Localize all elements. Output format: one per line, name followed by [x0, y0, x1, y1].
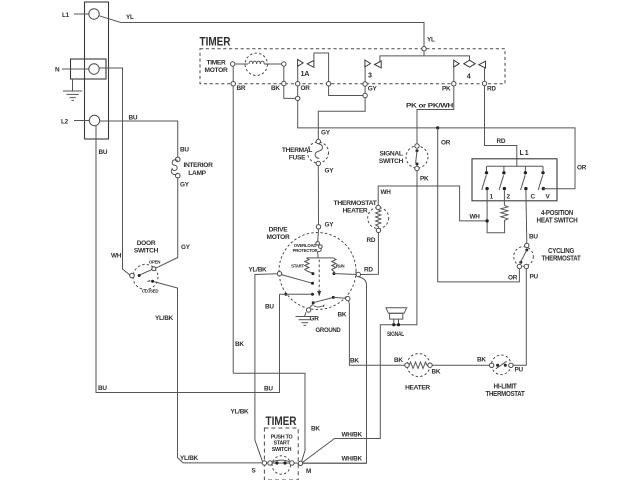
svg-text:C: C: [531, 194, 536, 201]
svg-text:BK: BK: [338, 311, 347, 318]
motor GY terminal: [316, 225, 320, 229]
node OR on timer boundary: [296, 82, 300, 86]
node bypass on timer boundary: [326, 82, 330, 86]
svg-text:4-POSITION: 4-POSITION: [541, 210, 573, 217]
svg-text:TIMER: TIMER: [206, 60, 226, 67]
wire run to RD junction: [334, 273, 358, 276]
terminal block: [85, 2, 109, 139]
svg-text:PU: PU: [530, 274, 539, 281]
signal buzzer: [386, 308, 407, 314]
wire contact 1A output OR: [298, 67, 575, 189]
svg-text:TIMER: TIMER: [200, 37, 232, 49]
wire contact 3 output GY: [364, 67, 366, 93]
terminal N: [89, 64, 99, 74]
thermal fuse: [308, 142, 329, 163]
timer box: [200, 49, 505, 84]
svg-text:BK: BK: [271, 85, 280, 92]
svg-text:WH: WH: [470, 214, 481, 221]
signal switch: [406, 146, 428, 168]
svg-text:GY: GY: [325, 222, 335, 229]
node junction 1A-BK: [296, 96, 300, 100]
svg-text:BU: BU: [180, 147, 189, 154]
svg-text:BU: BU: [129, 114, 138, 121]
cycling thermostat: [514, 247, 534, 267]
svg-text:GY: GY: [180, 182, 190, 189]
overload protector: [317, 229, 320, 242]
terminal L2: [89, 115, 99, 125]
svg-text:SWITCH: SWITCH: [134, 247, 159, 254]
svg-text:YL: YL: [427, 37, 435, 44]
svg-text:TIMER: TIMER: [266, 416, 298, 428]
node WH junction: [485, 219, 488, 222]
svg-text:4: 4: [467, 72, 471, 81]
wire YL bus inside timer: [380, 51, 424, 61]
wire contact 4 PK: [453, 67, 455, 81]
heat switch pole 1: [486, 166, 488, 171]
motor switch arm: [282, 275, 313, 284]
svg-text:DRIVE: DRIVE: [269, 227, 289, 234]
wire contact 4 RD: [484, 68, 486, 81]
svg-text:DOOR: DOOR: [137, 240, 156, 247]
svg-text:HEAT SWITCH: HEAT SWITCH: [537, 217, 578, 224]
svg-text:BU: BU: [264, 386, 273, 393]
wire WH thermostat heater to heat switch: [378, 186, 486, 221]
wire BU heat switch C to cycling thermostat: [525, 190, 528, 243]
wire YL from L1 to timer: [99, 16, 424, 47]
svg-text:BK: BK: [235, 341, 244, 348]
L2 lead wire: [74, 120, 89, 122]
svg-text:BU: BU: [529, 234, 538, 241]
wire WH/BK motor junction to M: [303, 277, 367, 464]
svg-text:BK: BK: [350, 357, 359, 364]
svg-text:CLOSED: CLOSED: [142, 289, 159, 294]
N lead wire: [62, 68, 89, 70]
wire RD thermostat heater to motor: [361, 233, 379, 275]
svg-text:PUSH TO: PUSH TO: [271, 434, 293, 440]
node BR on timer boundary: [231, 82, 235, 86]
wire GY thermal fuse to drive motor: [317, 166, 319, 225]
svg-text:WH: WH: [381, 189, 392, 196]
svg-text:PK or PK/WH: PK or PK/WH: [406, 103, 454, 110]
svg-text:RUN: RUN: [336, 264, 345, 269]
svg-text:BR: BR: [237, 85, 246, 92]
svg-text:L1: L1: [62, 12, 70, 19]
node BK on timer boundary: [282, 81, 286, 85]
wire OR to cycling thermostat: [438, 128, 520, 282]
wire V to OR riser: [543, 188, 545, 190]
svg-text:MOTOR: MOTOR: [205, 67, 228, 74]
svg-text:YL/BK: YL/BK: [249, 266, 268, 273]
svg-text:WH: WH: [111, 253, 122, 260]
bottom timer box: [264, 428, 298, 480]
wire RD to heat switch: [485, 86, 517, 167]
svg-text:YL: YL: [126, 14, 134, 21]
svg-text:SIGNAL: SIGNAL: [379, 151, 402, 158]
svg-text:BU: BU: [98, 385, 107, 392]
svg-text:START: START: [291, 264, 304, 269]
node RD on timer boundary: [482, 81, 486, 85]
wire BU from L2 to interior lamp: [100, 121, 178, 157]
ground symbol under motor: [296, 312, 315, 325]
svg-text:YL/BK: YL/BK: [231, 409, 250, 416]
svg-text:HI-LIMIT: HI-LIMIT: [494, 383, 518, 390]
svg-text:SWITCH: SWITCH: [379, 158, 404, 165]
svg-text:PK: PK: [442, 86, 451, 93]
wire GY lamp to door switch: [156, 178, 178, 268]
hi-limit thermostat: [491, 355, 511, 375]
svg-text:RD: RD: [364, 266, 373, 273]
svg-text:GY: GY: [368, 86, 378, 93]
interior lamp: [175, 157, 180, 162]
4-position heat switch box: [472, 159, 557, 201]
svg-text:OPEN: OPEN: [149, 259, 160, 264]
wire YL/BK door switch to push-to-start S: [154, 282, 262, 463]
svg-text:OR: OR: [508, 275, 518, 282]
node GY on timer boundary: [363, 82, 367, 86]
svg-text:RD: RD: [367, 237, 376, 244]
svg-text:BU: BU: [99, 149, 108, 156]
svg-text:OR: OR: [301, 85, 311, 92]
svg-text:3: 3: [368, 71, 372, 80]
node motor RD junction: [356, 272, 360, 276]
heater: [407, 354, 430, 377]
push to start switch: [272, 456, 290, 474]
svg-text:GY: GY: [325, 168, 335, 175]
svg-text:SWITCH: SWITCH: [272, 447, 292, 453]
svg-text:RD: RD: [487, 86, 496, 93]
wire BK motor switch to heater: [333, 296, 346, 299]
svg-text:RD: RD: [497, 138, 506, 145]
wire GY to thermal fuse: [318, 98, 365, 140]
timer contact 1A: [298, 59, 304, 66]
wire PK signal switch to signal: [302, 171, 417, 463]
timer contact 4: [454, 60, 460, 67]
ground: [63, 79, 82, 100]
wire PK to signal switch: [417, 86, 454, 144]
svg-text:WH/BK: WH/BK: [342, 431, 363, 438]
svg-text:CYCLING: CYCLING: [548, 248, 575, 255]
terminal L1: [89, 9, 99, 19]
svg-text:GROUND: GROUND: [316, 327, 341, 334]
svg-text:OR: OR: [577, 165, 587, 172]
svg-text:MOTOR: MOTOR: [267, 234, 290, 241]
wire BU from L2 down to BU bus and up to motor: [96, 126, 280, 393]
svg-text:GY: GY: [321, 130, 331, 137]
timer contact 3: [365, 60, 371, 67]
heat switch inner bus: [487, 165, 544, 167]
svg-text:PK: PK: [420, 176, 429, 183]
svg-text:YL/BK: YL/BK: [180, 455, 199, 462]
motor ground terminal: [309, 304, 313, 308]
svg-text:YL/BK: YL/BK: [155, 315, 174, 322]
heat switch pole 2: [503, 166, 505, 171]
svg-text:BK: BK: [432, 369, 441, 376]
wire BK timer motor right down: [284, 66, 295, 98]
wire BK timer to push-to-start M: [233, 373, 305, 462]
svg-text:FUSE: FUSE: [289, 155, 306, 162]
resistor R1 heat switch: [503, 190, 505, 205]
wire PU cycling to hi-limit: [513, 269, 526, 366]
svg-text:INTERIOR: INTERIOR: [183, 162, 213, 169]
wire sw1 to WH junction and resistor bottom: [487, 190, 505, 233]
drive motor: [279, 233, 356, 310]
svg-text:THERMOSTAT: THERMOSTAT: [486, 391, 526, 398]
svg-text:M: M: [306, 468, 311, 475]
motor lower contacts: [284, 293, 287, 296]
svg-text:PROTECTOR: PROTECTOR: [293, 248, 319, 253]
wire YL/BK motor to push-to-start S: [255, 274, 277, 462]
svg-text:PU: PU: [515, 367, 524, 374]
svg-text:BU: BU: [265, 304, 274, 311]
svg-text:SIGNAL: SIGNAL: [387, 331, 404, 338]
svg-text:HEATER: HEATER: [405, 384, 430, 391]
node PK on timer boundary: [452, 82, 456, 86]
svg-text:WH/BK: WH/BK: [342, 455, 363, 462]
svg-text:L1: L1: [520, 150, 530, 157]
motor centrifugal dashed arrow: [318, 260, 320, 292]
wire WH from N to door switch: [99, 68, 130, 275]
svg-text:START: START: [273, 441, 290, 447]
door switch: [133, 265, 158, 290]
svg-text:OR: OR: [441, 140, 451, 147]
node junction OR drop: [436, 126, 439, 129]
wire 1A bypass to contact 3 output: [314, 53, 363, 96]
svg-text:N: N: [55, 67, 60, 74]
timer motor M1: [245, 53, 267, 75]
svg-text:BK: BK: [394, 357, 403, 364]
node contact3 output circle: [363, 93, 367, 97]
svg-text:HEATER: HEATER: [343, 208, 368, 215]
svg-text:L2: L2: [61, 118, 69, 125]
heat switch pole V: [542, 166, 544, 171]
svg-text:THERMOSTAT: THERMOSTAT: [542, 256, 582, 263]
L1 lead wire: [74, 13, 89, 15]
heat switch pole C: [524, 166, 526, 171]
svg-text:THERMOSTAT: THERMOSTAT: [334, 200, 377, 207]
N terminal box: [71, 59, 107, 79]
motor YL/BK terminal: [277, 272, 281, 276]
svg-text:LAMP: LAMP: [188, 170, 206, 177]
svg-text:BK: BK: [311, 426, 320, 433]
svg-text:BK: BK: [477, 357, 486, 364]
thermostat heater: [368, 208, 389, 229]
wire BR timer motor down: [232, 66, 234, 373]
motor winding bar: [307, 257, 334, 259]
svg-text:1A: 1A: [301, 69, 310, 78]
svg-text:GY: GY: [181, 244, 191, 251]
wire BK heater to hi-limit: [432, 364, 489, 366]
node YL timer entry: [422, 47, 426, 51]
